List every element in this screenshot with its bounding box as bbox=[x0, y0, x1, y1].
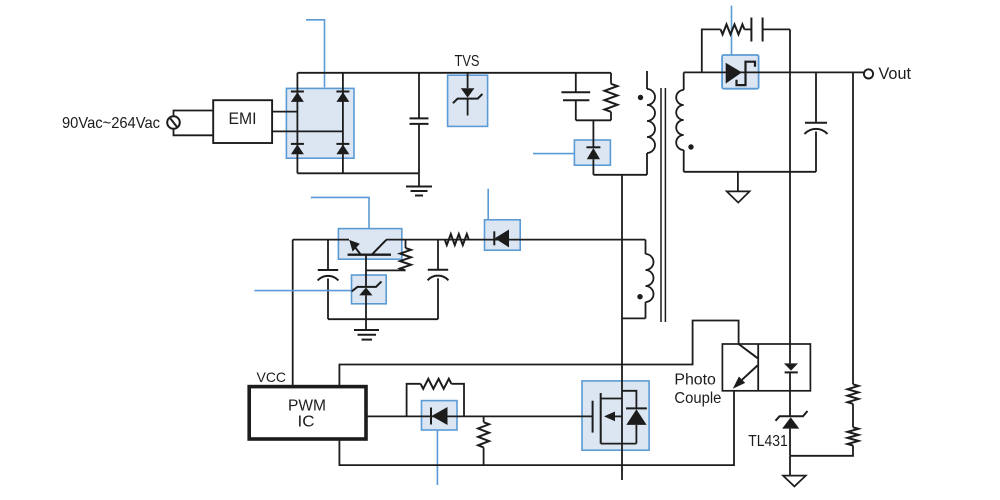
signal ground G3 bbox=[727, 172, 750, 203]
blue stub to transistor bbox=[311, 197, 369, 228]
wire PWM bottom rail bbox=[339, 391, 734, 465]
optocoupler phototransistor bbox=[733, 344, 758, 389]
zener diode Z1 bbox=[352, 282, 382, 331]
bridge diode D3 bbox=[291, 143, 304, 145]
DC- bottom rail bbox=[297, 172, 419, 174]
aux polarity dot bbox=[637, 294, 642, 299]
DC+ top rail bbox=[297, 72, 611, 74]
aux diode D7 bbox=[494, 230, 509, 248]
Vout terminal bbox=[864, 69, 873, 78]
secondary output rail wire bbox=[684, 71, 864, 73]
primary polarity dot bbox=[638, 95, 643, 100]
divider bottom wire bbox=[790, 446, 853, 456]
clamp diode D5 bbox=[586, 147, 600, 175]
bulk capacitor C1 bbox=[410, 73, 429, 174]
sense resistor R6 bbox=[478, 416, 489, 465]
aux series resistor R4 bbox=[445, 234, 469, 245]
secondary polarity dot bbox=[688, 144, 693, 149]
optocoupler box bbox=[722, 344, 810, 391]
blue stub to zener bbox=[254, 290, 351, 292]
wire PWM gate output bbox=[366, 415, 593, 417]
svg-text:TL431: TL431 bbox=[748, 433, 788, 450]
snubber resistor R1 bbox=[605, 73, 618, 121]
AC source bbox=[167, 116, 180, 129]
gate diode D8 bbox=[431, 407, 448, 425]
VCC node wire left bbox=[293, 239, 349, 241]
divider wire from Vout bbox=[852, 72, 854, 384]
TL431 shunt regulator bbox=[776, 411, 808, 456]
secondary snubber: left leg bbox=[702, 29, 721, 72]
wire LED to TL431 bbox=[789, 372, 791, 416]
gate parallel resistor R5 bbox=[407, 379, 464, 417]
gate diode highlight box bbox=[422, 401, 458, 430]
wire EMI to bridge left bbox=[272, 111, 297, 113]
signal ground G4 bbox=[783, 456, 806, 487]
VCC node wire right bbox=[386, 239, 646, 241]
bridge rectifier highlight box bbox=[286, 88, 354, 158]
vertical wire Vout to optocoupler LED bbox=[789, 29, 791, 363]
svg-text:90Vac~264Vac: 90Vac~264Vac bbox=[62, 115, 160, 132]
output rectifier schottky diode D6 bbox=[726, 62, 755, 85]
primary bottom node wire bbox=[593, 174, 647, 176]
divider resistor R7 bbox=[848, 384, 859, 404]
wire AC bottom to EMI bbox=[174, 129, 214, 136]
output capacitor C3 bbox=[805, 72, 828, 171]
svg-text:EMI: EMI bbox=[229, 109, 257, 128]
bridge diode D2 bbox=[336, 91, 349, 93]
bridge diode D1 bbox=[291, 91, 304, 93]
svg-text:Photo: Photo bbox=[674, 372, 716, 389]
wire snubber to clamp diode bbox=[592, 120, 594, 147]
bridge diode D4 bbox=[336, 143, 349, 145]
blue stub to clamp diode bbox=[533, 153, 574, 155]
drain-source vertical wire bbox=[621, 175, 623, 480]
EMI filter block bbox=[213, 100, 272, 143]
divider middle wire bbox=[852, 404, 854, 428]
aux bottom wire bbox=[622, 317, 646, 319]
blue stub below gate diode bbox=[436, 430, 438, 485]
transistor Q1 bbox=[348, 240, 391, 287]
VCC rail vertical wire bbox=[292, 240, 294, 387]
secondary snubber resistor R2 bbox=[721, 24, 745, 34]
blue stub to bridge bbox=[306, 20, 325, 88]
TVS highlight box bbox=[448, 75, 488, 126]
blue stub to output rectifier bbox=[731, 6, 733, 55]
secondary snubber series capacitor C6 bbox=[744, 18, 790, 42]
clamp diode highlight box bbox=[574, 140, 610, 165]
earth ground G1 bbox=[406, 173, 432, 195]
transformer secondary winding bbox=[676, 72, 684, 171]
svg-text:Couple: Couple bbox=[674, 390, 721, 407]
base resistor R3 bbox=[366, 240, 411, 271]
VCC cap C4 bbox=[318, 240, 339, 320]
regulator transistor highlight box bbox=[338, 229, 401, 260]
divider resistor R8 bbox=[848, 427, 859, 445]
secondary bottom wire bbox=[684, 171, 816, 173]
transformer aux winding bbox=[646, 240, 654, 319]
wire EMI to bridge right bbox=[272, 130, 343, 132]
svg-text:TVS: TVS bbox=[455, 53, 480, 70]
VCC bottom bar wire bbox=[328, 318, 438, 320]
wire AC top to EMI bbox=[174, 111, 214, 117]
aux diode highlight box bbox=[485, 220, 521, 250]
snubber capacitor C2 bbox=[561, 73, 590, 121]
optocoupler LED bbox=[784, 363, 798, 372]
bridge left leg wire bbox=[296, 73, 298, 174]
svg-text:PWM: PWM bbox=[288, 398, 326, 415]
VCC cap C5 bbox=[428, 240, 449, 320]
zener highlight box bbox=[352, 275, 387, 304]
transformer core bbox=[661, 88, 665, 322]
wire PWM top to optocoupler bbox=[339, 321, 738, 387]
svg-text:VCC: VCC bbox=[257, 369, 287, 385]
output rectifier highlight box bbox=[722, 55, 759, 89]
blue stub to aux diode bbox=[487, 189, 489, 220]
TVS diode bbox=[453, 73, 483, 116]
svg-text:IC: IC bbox=[298, 414, 315, 431]
MOSFET highlight box bbox=[582, 381, 649, 450]
transformer primary winding bbox=[647, 71, 655, 175]
snubber bottom bar wire bbox=[576, 119, 611, 121]
MOSFET Q2 bbox=[593, 391, 647, 444]
bridge right leg wire bbox=[342, 73, 344, 174]
PWM IC block bbox=[249, 387, 366, 439]
svg-text:Vout: Vout bbox=[879, 64, 912, 83]
earth ground G2 bbox=[354, 330, 379, 340]
